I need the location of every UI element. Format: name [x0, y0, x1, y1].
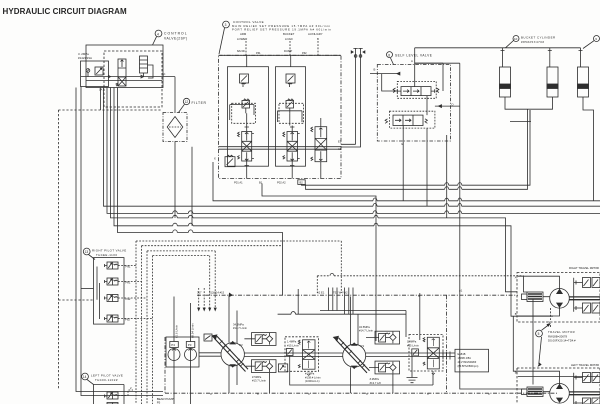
- pilot line nest dashed vertical 4: [152, 256, 154, 404]
- right travel motor boundary: [517, 273, 600, 323]
- svg-text:FILTER: FILTER: [192, 101, 207, 105]
- pump internal gallery 2: [278, 313, 406, 315]
- port stubs: [247, 55, 321, 178]
- svg-text:A: A: [515, 276, 517, 280]
- inter-motor wire: [532, 299, 534, 385]
- pilot line nest dashed vertical 2: [141, 246, 143, 404]
- svg-text:PORT RELIEF SET PRESSURE 19.1M: PORT RELIEF SET PRESSURE 19.1MPA A# 60L/…: [232, 28, 332, 32]
- check valve diamond P1 upper: [390, 332, 396, 344]
- filter outlet wire: [174, 142, 176, 218]
- wire A3 to bus: [341, 55, 361, 147]
- leader to control valve 2SP: [153, 37, 157, 45]
- P4 P3 drains: [174, 361, 191, 404]
- svg-text:CONTROL: CONTROL: [164, 32, 188, 36]
- pump P4 label box: [170, 342, 179, 348]
- P2 relief valve lower: [246, 362, 267, 371]
- drain drops: [270, 373, 393, 394]
- bucket cylinder 2: [547, 48, 558, 97]
- svg-text:x: x: [210, 392, 212, 396]
- wire B2 second: [306, 109, 528, 189]
- auxiliary spool: [311, 127, 327, 162]
- node D wire: [435, 105, 460, 107]
- pilot line dashed right branch: [317, 276, 523, 293]
- tank line left 2: [81, 87, 163, 396]
- pump group boundary top: [197, 294, 518, 296]
- wire top link: [415, 63, 443, 91]
- svg-text:P01 A1: P01 A1: [234, 180, 243, 184]
- leader to self level valve: [391, 58, 394, 65]
- riser to engine box: [405, 311, 407, 338]
- motor ports wiring: [518, 276, 560, 316]
- pump internal feed risers: [297, 289, 299, 314]
- svg-text:B: B: [374, 68, 376, 72]
- svg-text:68.94 L/min: 68.94 L/min: [191, 323, 195, 338]
- wire bus 4: [111, 88, 518, 292]
- leader to arm cylinder: [583, 41, 594, 49]
- wire A to spool: [414, 48, 416, 87]
- brake release wire: [529, 110, 531, 122]
- drain verticals below 2SP valve: [100, 88, 102, 111]
- check valve diamond P1 lower: [390, 362, 396, 374]
- svg-text:3: 3: [225, 23, 227, 27]
- svg-text:RIGHT TRAVEL M#T#R: RIGHT TRAVEL M#T#R: [569, 266, 599, 270]
- regulator frame P2: [285, 337, 319, 372]
- motor output shaft: [569, 297, 600, 300]
- svg-text:LEFT TRAVEL M#T#R: LEFT TRAVEL M#T#R: [571, 363, 599, 367]
- svg-text:34.5MPa: 34.5MPa: [233, 323, 244, 327]
- svg-text:TH400-1102#: TH400-1102#: [95, 378, 118, 382]
- wire B1 to pump regulator: [262, 184, 376, 342]
- right pilot valve boundary: [94, 258, 125, 325]
- svg-text:TH4EE-1100: TH4EE-1100: [96, 253, 118, 257]
- coupler A: [359, 55, 362, 58]
- left motor ports wiring: [513, 316, 600, 392]
- arm section sub-box: [228, 67, 269, 167]
- SLV spool 1: [393, 81, 439, 98]
- leader to bucket cylinder: [506, 41, 514, 48]
- pilot block: [278, 364, 287, 372]
- control valve top rail: [219, 54, 342, 56]
- pump group boundary right: [446, 295, 448, 393]
- svg-text:#13.7 L/min: #13.7 L/min: [252, 379, 267, 383]
- svg-text:HYDRAULIC CIRCUIT DIAGRAM: HYDRAULIC CIRCUIT DIAGRAM: [3, 7, 127, 16]
- arm cylinder label circle 9: [594, 36, 600, 42]
- self level valve boundary: [377, 65, 450, 142]
- svg-text:P: P: [164, 73, 166, 77]
- gauge symbol: [86, 69, 90, 73]
- control valve boundary: [219, 55, 342, 178]
- svg-text:AUXILIARY: AUXILIARY: [308, 32, 323, 36]
- feed gallery lines: [219, 146, 342, 148]
- pilot line nest dashed vertical 1: [135, 241, 137, 404]
- svg-text:#138.# L/min: #138.# L/min: [305, 375, 321, 379]
- feed wire to A riser: [415, 62, 460, 64]
- svg-text:#85#25X470#: #85#25X470#: [521, 40, 545, 44]
- pump group boundary left: [164, 337, 166, 393]
- pilot valve Pc1: [105, 386, 134, 399]
- pilot pump sub-box: [81, 61, 109, 87]
- main spool bucket: [283, 126, 300, 168]
- filter inlet wire: [174, 77, 176, 113]
- svg-text:B2: B2: [300, 180, 304, 184]
- pilot valve Pb2: [105, 315, 153, 322]
- wire bus 3: [107, 88, 600, 214]
- motor relief cluster upper: [574, 278, 600, 312]
- pilot valve Pa2: [105, 295, 148, 302]
- svg-text:13: 13: [85, 250, 89, 254]
- leader to right pilot valve: [89, 255, 96, 260]
- second line: [86, 80, 162, 82]
- bucket cylinder label circle 10: [513, 36, 556, 44]
- svg-text:#.5MPa: #.5MPa: [305, 372, 315, 376]
- regulator spool P2: [298, 340, 315, 376]
- svg-text:x: x: [488, 392, 490, 396]
- pilot port dashed drops: [199, 288, 205, 310]
- svg-text:14: 14: [83, 375, 87, 379]
- svg-text:P2: P2: [239, 343, 243, 347]
- tank symbol: [407, 378, 418, 383]
- leader to control valve: [219, 28, 225, 54]
- regulator spool P1: [423, 337, 439, 374]
- node E wire: [402, 126, 404, 201]
- drain line x marks: [210, 392, 490, 396]
- bucket cylinder 1: [500, 48, 511, 97]
- svg-text:B: B: [515, 312, 517, 316]
- left motor output shaft: [569, 392, 600, 395]
- shaft coupling marks: [443, 352, 450, 360]
- spool valve (2SP): [116, 59, 126, 86]
- engine box: [455, 349, 489, 372]
- P1 relief valve upper: [366, 333, 390, 342]
- svg-text:P#2: P#2: [302, 51, 307, 55]
- port relief valve bucket A: [286, 74, 295, 87]
- svg-text:P3: P3: [188, 343, 192, 347]
- rod end feed wire: [415, 47, 581, 49]
- wire bus 2: [104, 88, 600, 207]
- left pilot valve label circle 14: [82, 373, 124, 382]
- svg-text:A: A: [411, 59, 413, 63]
- P4 P3 risers: [174, 297, 191, 342]
- svg-text:#1421/#1A: #1421/#1A: [78, 56, 92, 60]
- accumulator component: [140, 56, 154, 78]
- svg-text:#.5MPa: #.5MPa: [252, 375, 262, 379]
- motor relief cluster lower: [583, 303, 600, 313]
- pilot line nest dashed horizontal 3: [147, 251, 215, 310]
- filter element diamond: [167, 117, 183, 138]
- pilot valve Pc2 partial: [107, 403, 118, 404]
- svg-text:D: D: [452, 103, 454, 107]
- svg-text:10: 10: [514, 37, 518, 41]
- relief group frames P2: [252, 333, 277, 346]
- svg-text:TE2 W4 W2: TE2 W4 W2: [333, 291, 348, 295]
- svg-text:P1: P1: [361, 344, 365, 348]
- svg-text:12: 12: [185, 100, 189, 104]
- cylinder bottom manifold: [505, 97, 553, 109]
- svg-text:LOAD: LOAD: [285, 37, 293, 41]
- svg-text:A1: A1: [459, 289, 463, 293]
- svg-text:B: B: [515, 371, 517, 375]
- filter box: [163, 113, 187, 142]
- pilot valve Pa1: [105, 262, 137, 269]
- bucket section sub-box: [276, 67, 306, 167]
- pump P1: [343, 343, 366, 369]
- filter label circle 12: [183, 98, 206, 105]
- svg-text:B: B: [317, 37, 319, 41]
- P2 outlet risers: [229, 297, 237, 344]
- svg-text:#.#MPa: #.#MPa: [370, 377, 380, 381]
- svg-text:4: 4: [157, 32, 159, 36]
- P1 relief valve lower: [369, 363, 390, 372]
- svg-text:P#1: P#1: [256, 51, 261, 55]
- svg-text:34.5MPa: 34.5MPa: [359, 325, 370, 329]
- svg-text:1.4MPa: 1.4MPa: [287, 340, 297, 344]
- svg-text:E: E: [402, 142, 404, 146]
- svg-text:317: 317: [197, 291, 202, 295]
- svg-text:SELF LEVEL VALVE: SELF LEVEL VALVE: [395, 54, 432, 58]
- check valve diamond lower: [266, 360, 272, 372]
- pilot line nest dashed horizontal 4: [153, 256, 210, 310]
- svg-text:5: 5: [538, 332, 540, 336]
- svg-text:DUMP: DUMP: [284, 49, 292, 53]
- svg-text:x: x: [366, 392, 368, 396]
- svg-text:A2 E1: A2 E1: [317, 291, 325, 295]
- solenoid block: [204, 334, 212, 341]
- svg-text:P5: P5: [157, 401, 161, 404]
- P1 outlet risers: [351, 297, 359, 345]
- arm cylinder return wire: [583, 97, 594, 201]
- pump P3: [185, 349, 197, 361]
- pilot line nest dashed vertical 3: [146, 251, 148, 404]
- control valve 2SP dashed boundary: [104, 51, 162, 107]
- pilot relief valve P1: [412, 349, 419, 356]
- svg-text:VALVE(2SP): VALVE(2SP): [164, 37, 188, 41]
- control valve label circle 3: [223, 20, 332, 31]
- port relief valve arm A: [240, 74, 249, 87]
- SLV spool 2: [385, 111, 435, 128]
- drive shaft: [199, 353, 455, 357]
- relief valve in sub-box: [95, 67, 103, 75]
- case drain riser: [419, 293, 421, 340]
- left travel motor: [550, 384, 570, 404]
- svg-text:312(#14 #15: 312(#14 #15: [209, 291, 225, 295]
- left travel motor boundary: [517, 368, 600, 404]
- svg-text:#14.7 L/min: #14.7 L/min: [359, 329, 374, 333]
- main spool arm: [238, 126, 254, 168]
- check valve diamond upper: [266, 333, 273, 345]
- right riser wire: [460, 63, 526, 389]
- pump group drain line: [165, 392, 558, 394]
- left pilot valve boundary: [94, 385, 125, 404]
- left motor relief cluster: [574, 373, 600, 404]
- svg-text:EA81B: EA81B: [458, 352, 466, 356]
- port relief bucket assembly: [279, 99, 304, 123]
- wire bus 5: [114, 88, 553, 317]
- leader to left pilot valve: [87, 380, 94, 385]
- svg-text:P02 A2: P02 A2: [277, 180, 286, 184]
- wire B port: [341, 55, 399, 145]
- svg-text:#14.7 L/min: #14.7 L/min: [233, 326, 248, 330]
- pump P4 P3 frame: [166, 337, 199, 367]
- regulator frame P1: [409, 335, 443, 372]
- leader to filter: [179, 104, 185, 112]
- bucket section internal wires: [278, 111, 303, 122]
- pump drains to tank: [229, 359, 433, 393]
- svg-text:1A: 1A: [99, 88, 102, 92]
- svg-text:1.4MPa: 1.4MPa: [407, 340, 417, 344]
- check mark on line: [108, 75, 144, 78]
- svg-text:x: x: [257, 392, 259, 396]
- svg-text:(1000min-1): (1000min-1): [305, 379, 320, 383]
- wire spool1 to spool2: [426, 96, 428, 116]
- svg-text:8: 8: [388, 53, 390, 57]
- svg-text:LOWER: LOWER: [237, 37, 247, 41]
- svg-text:x: x: [427, 392, 429, 396]
- svg-text:DS.00FX20.14=TD4.#: DS.00FX20.14=TD4.#: [548, 339, 576, 343]
- arrow on B wire: [397, 72, 400, 75]
- dashed tank return: [57, 110, 59, 390]
- arm cylinder: [578, 48, 589, 97]
- svg-text:4#.2YM/2900#/#: 4#.2YM/2900#/#: [458, 360, 477, 364]
- leaders from circle 5: [539, 325, 549, 365]
- pilot supply wires: [81, 288, 94, 290]
- pilot line nest dashed horizontal 1: [136, 241, 341, 293]
- svg-text:BUCKET: BUCKET: [283, 32, 295, 36]
- control valve (2SP) label circle 4: [155, 30, 187, 40]
- svg-text:8A/3D: 8A/3D: [237, 49, 245, 53]
- svg-text:#13.7 L/#: #13.7 L/#: [370, 381, 382, 385]
- tank line left 1: [76, 88, 163, 392]
- pump internal gallery 1: [320, 310, 406, 312]
- P1 swash arrows: [334, 336, 370, 373]
- SLV inner wire: [382, 74, 398, 91]
- coupler B: [354, 55, 357, 58]
- svg-text:P4: P4: [171, 343, 175, 347]
- pump P3 label box: [186, 342, 195, 348]
- svg-text:ARM: ARM: [240, 32, 247, 36]
- arm section internal wires: [230, 105, 254, 120]
- control valve 2SP solid frame: [86, 45, 163, 88]
- svg-text:x: x: [308, 392, 310, 396]
- svg-text:A3: A3: [338, 147, 342, 151]
- wire pump suction x192: [191, 147, 193, 226]
- counterbalance valve right: [522, 292, 544, 302]
- self level valve label circle 8: [387, 52, 433, 58]
- pilot valve Pb1: [105, 278, 142, 285]
- svg-text:x: x: [214, 157, 216, 161]
- wire bus 1: [213, 162, 600, 201]
- SLV drain wires: [426, 128, 428, 206]
- pilot line nest dashed horizontal 2: [142, 245, 283, 247]
- svg-text:61.6 L/min: 61.6 L/min: [175, 324, 179, 338]
- counterbalance valve left: [522, 387, 544, 397]
- svg-text:1582B 4/B1: 1582B 4/B1: [458, 356, 472, 360]
- P2 relief valve upper: [244, 335, 266, 344]
- wire bus 6: [118, 88, 283, 296]
- outlet line P: [81, 76, 175, 78]
- svg-text:(8#.5PS/2800rpm): (8#.5PS/2800rpm): [458, 364, 479, 368]
- travel motor label circle 5: [536, 330, 576, 343]
- inlet relief valve: [225, 155, 235, 167]
- pump P4: [168, 349, 180, 361]
- port relief arm assembly: [232, 99, 256, 123]
- right travel motor: [550, 289, 570, 309]
- svg-text:E3: E3: [338, 140, 342, 144]
- dashed leaders to ports: [245, 41, 247, 55]
- dashed branch to 2SP: [58, 109, 162, 111]
- P2 swash arrows: [212, 335, 248, 372]
- right pilot valve label circle 13: [83, 248, 126, 257]
- pump P2: [221, 342, 244, 368]
- wire B2 to bucket cylinder: [302, 110, 531, 185]
- svg-text:#15 L/min: #15 L/min: [287, 343, 299, 347]
- pilot relief valve: [286, 349, 293, 356]
